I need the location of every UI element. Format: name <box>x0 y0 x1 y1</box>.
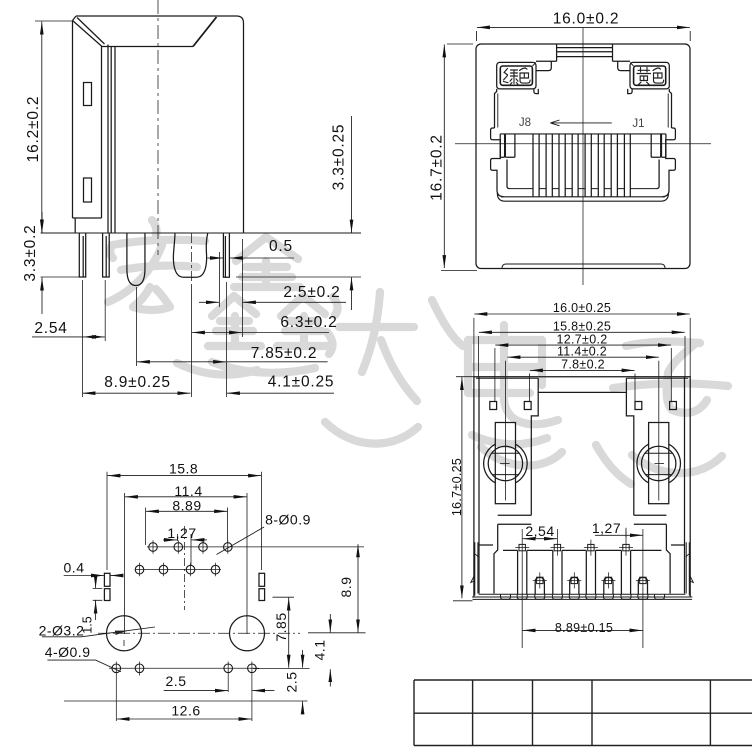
svg-text:8.89: 8.89 <box>172 498 201 514</box>
svg-text:16.7±0.25: 16.7±0.25 <box>450 458 464 516</box>
svg-text:2,54: 2,54 <box>525 523 554 539</box>
svg-text:2.5: 2.5 <box>284 672 300 693</box>
svg-text:4.1±0.25: 4.1±0.25 <box>268 374 335 391</box>
svg-text:11.4±0.2: 11.4±0.2 <box>557 344 607 358</box>
svg-text:2.5±0.2: 2.5±0.2 <box>283 284 340 301</box>
svg-text:2.5: 2.5 <box>166 673 187 689</box>
svg-text:16.2±0.2: 16.2±0.2 <box>25 96 42 163</box>
svg-text:16.0±0.2: 16.0±0.2 <box>553 11 620 28</box>
svg-text:1,27: 1,27 <box>592 520 621 536</box>
svg-text:2.54: 2.54 <box>34 320 67 337</box>
svg-text:J1: J1 <box>632 118 644 130</box>
svg-text:7.8±0.2: 7.8±0.2 <box>561 358 605 372</box>
svg-text:15.8: 15.8 <box>169 461 198 477</box>
svg-text:1,27: 1,27 <box>167 525 196 541</box>
svg-text:3.3±0.25: 3.3±0.25 <box>331 124 348 191</box>
svg-text:4-Ø0.9: 4-Ø0.9 <box>45 644 91 660</box>
svg-text:16.7±0.2: 16.7±0.2 <box>429 134 446 201</box>
svg-text:0.5: 0.5 <box>269 238 293 255</box>
svg-text:6.3±0.2: 6.3±0.2 <box>280 314 337 331</box>
svg-text:3.3±0.2: 3.3±0.2 <box>22 224 39 281</box>
svg-text:J8: J8 <box>519 117 531 129</box>
svg-text:2-Ø3.2: 2-Ø3.2 <box>39 622 85 638</box>
svg-text:8.9±0.25: 8.9±0.25 <box>104 374 171 391</box>
svg-text:12.6: 12.6 <box>171 703 200 719</box>
svg-text:8.9: 8.9 <box>338 577 354 598</box>
svg-text:7.85±0.2: 7.85±0.2 <box>251 345 318 362</box>
svg-text:16.0±0.25: 16.0±0.25 <box>553 301 611 315</box>
svg-text:4.1: 4.1 <box>312 640 328 661</box>
svg-text:8-Ø0.9: 8-Ø0.9 <box>265 512 311 528</box>
svg-text:8.89±0.15: 8.89±0.15 <box>555 621 613 635</box>
svg-text:0.4: 0.4 <box>64 559 85 575</box>
svg-text:7.85: 7.85 <box>273 612 289 641</box>
